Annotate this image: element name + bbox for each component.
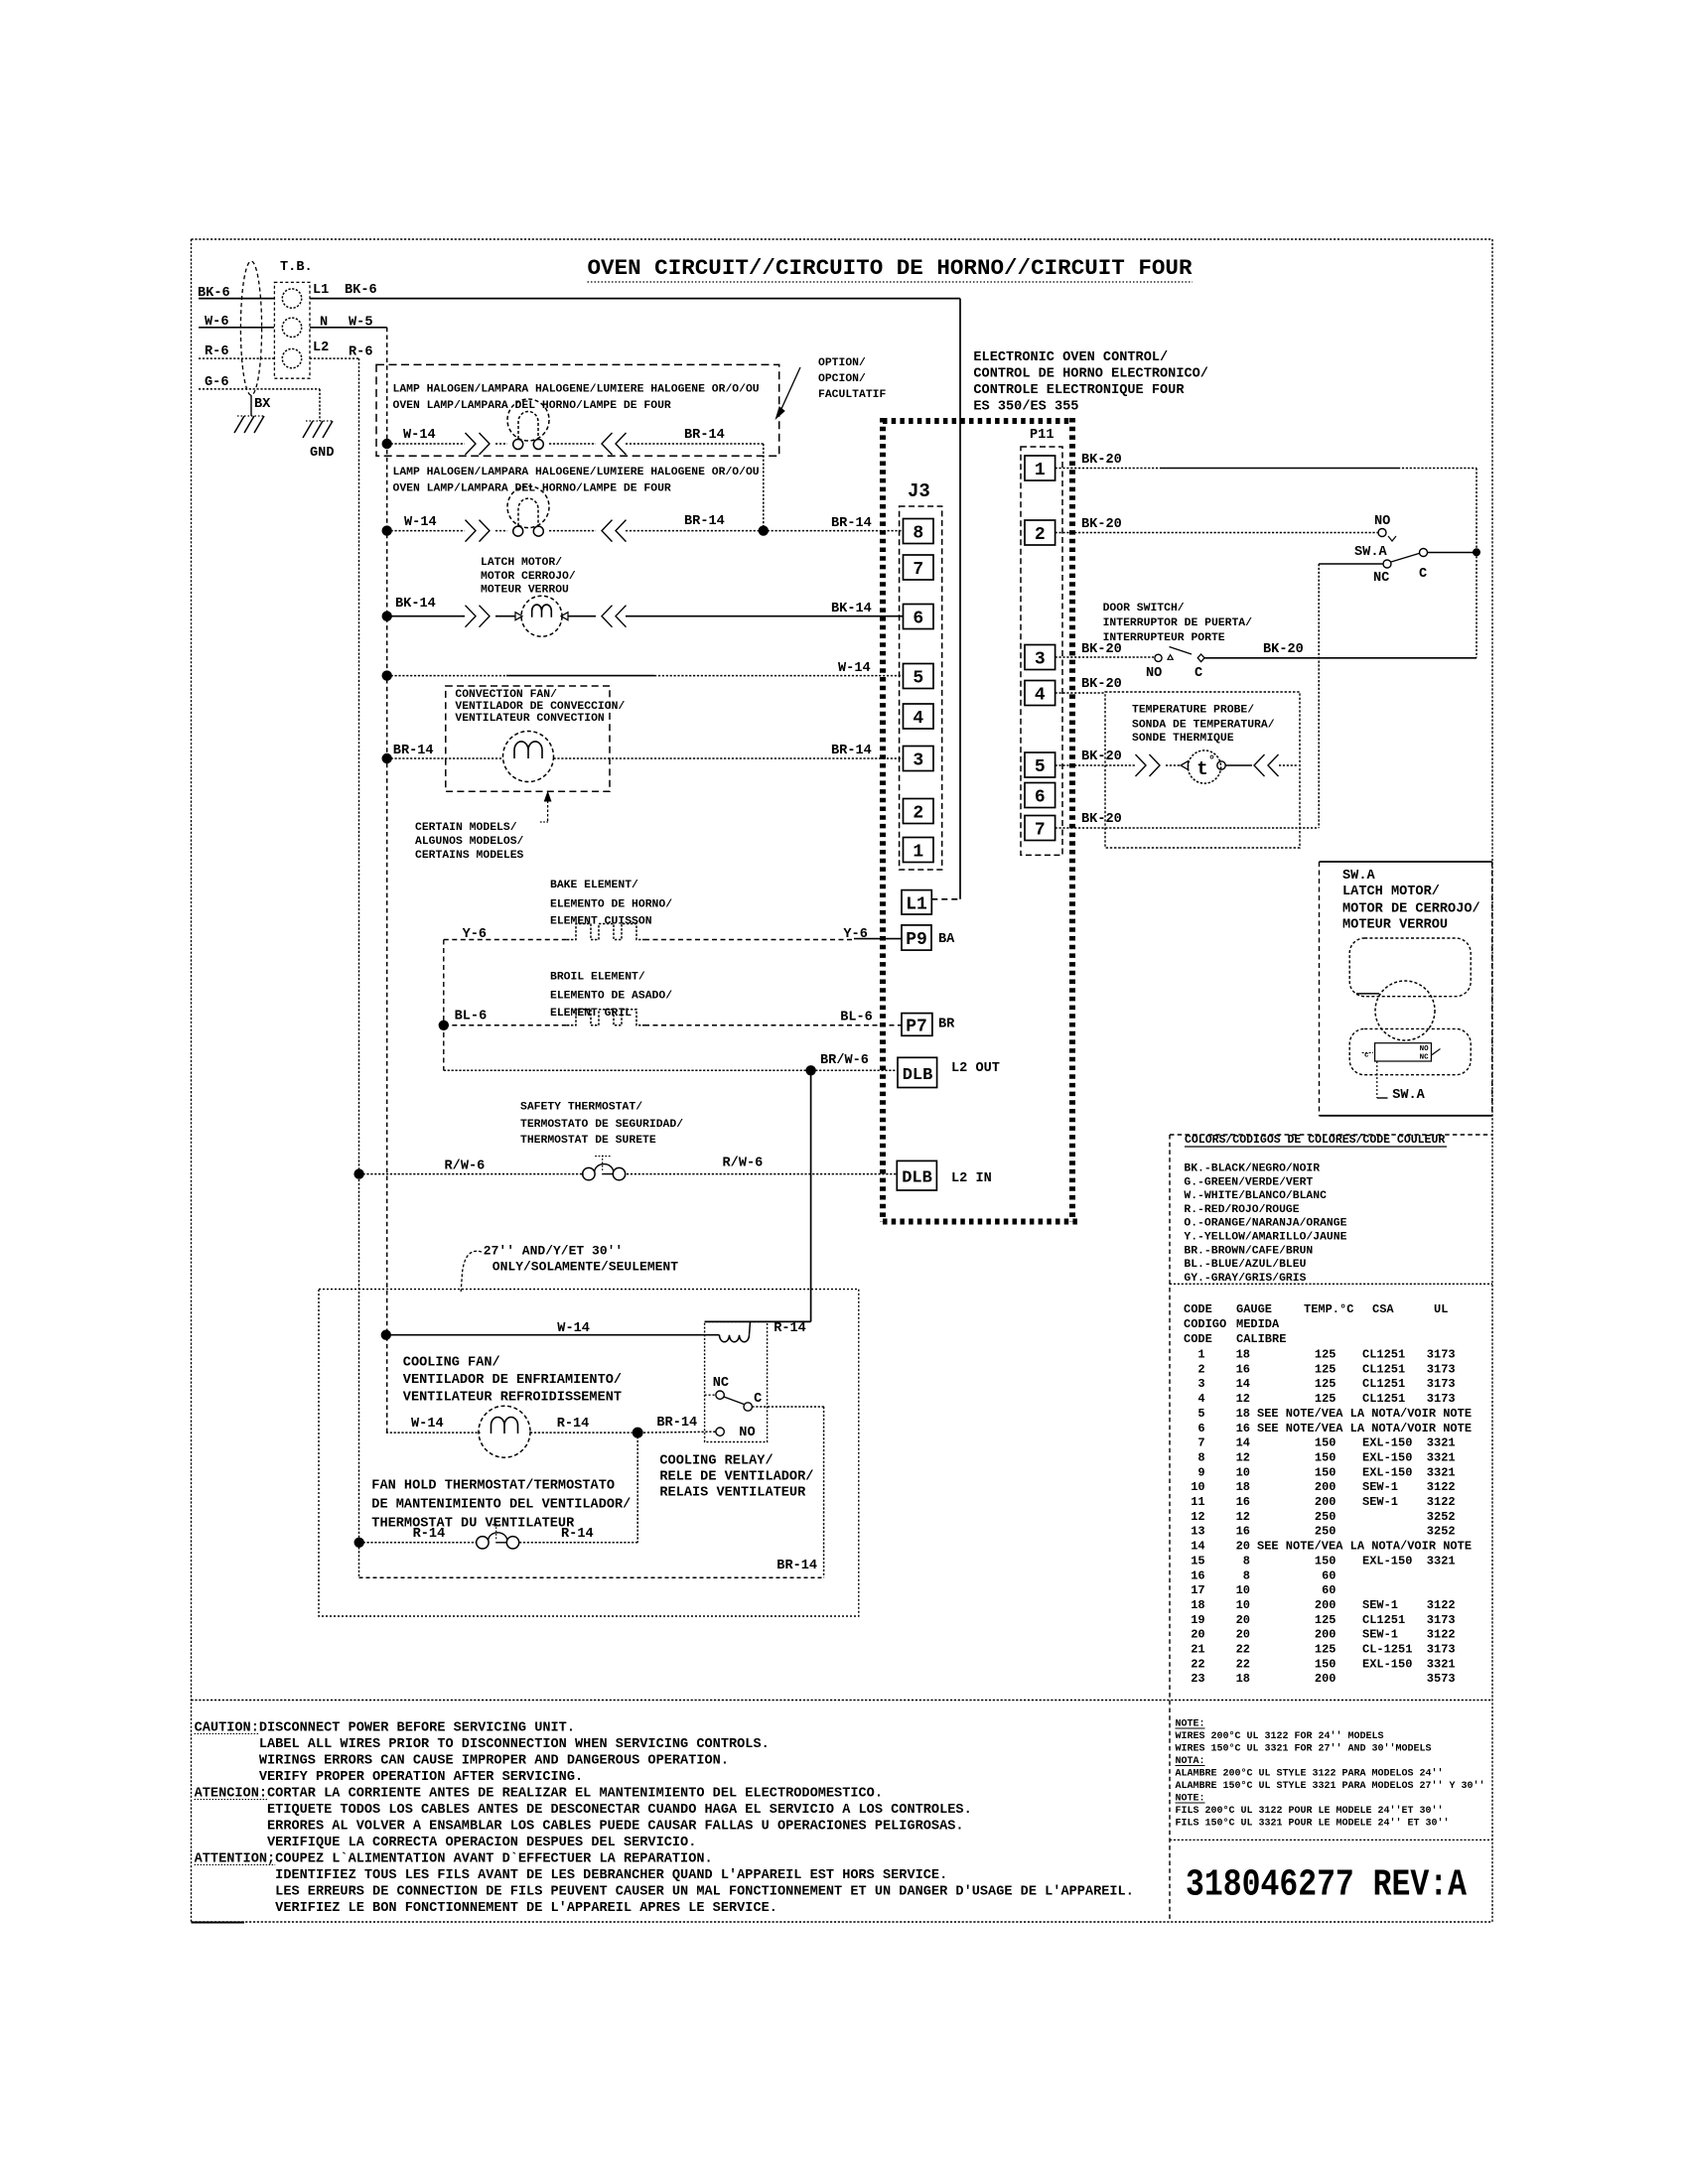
svg-text:150: 150	[1315, 1450, 1336, 1464]
svg-text:BL.-BLUE/AZUL/BLEU: BL.-BLUE/AZUL/BLEU	[1184, 1259, 1306, 1271]
svg-text:P7: P7	[906, 1017, 927, 1036]
svg-text:BK-20: BK-20	[1263, 642, 1304, 657]
svg-text:7: 7	[1035, 821, 1046, 841]
svg-text:NO: NO	[1420, 1045, 1430, 1053]
svg-text:LAMP HALOGEN/LAMPARA HALOGENE/: LAMP HALOGEN/LAMPARA HALOGENE/LUMIERE HA…	[393, 467, 760, 478]
svg-text:NC: NC	[1373, 571, 1389, 586]
svg-text:TERMOSTATO DE SEGURIDAD/: TERMOSTATO DE SEGURIDAD/	[520, 1119, 683, 1131]
svg-text:20: 20	[1191, 1628, 1204, 1642]
svg-text:8: 8	[1243, 1554, 1250, 1568]
svg-text:ELECTRONIC OVEN CONTROL/: ELECTRONIC OVEN CONTROL/	[973, 350, 1168, 365]
svg-text:12: 12	[1236, 1510, 1250, 1524]
svg-text:BK-20: BK-20	[1081, 642, 1122, 657]
svg-text:THERMOSTAT DE SURETE: THERMOSTAT DE SURETE	[520, 1135, 656, 1147]
svg-text:2: 2	[1035, 525, 1046, 545]
svg-text:LATCH MOTOR/: LATCH MOTOR/	[1342, 885, 1440, 899]
svg-text:3122: 3122	[1427, 1480, 1456, 1494]
svg-text:SW.A: SW.A	[1354, 545, 1387, 560]
svg-text:15: 15	[1191, 1554, 1204, 1568]
svg-text:TEMP.°C: TEMP.°C	[1304, 1302, 1353, 1316]
svg-text:CERTAIN MODELS/: CERTAIN MODELS/	[415, 822, 517, 834]
svg-text:FILS 150°C UL 3321 POUR LE MOD: FILS 150°C UL 3321 POUR LE MODELE 24'' E…	[1176, 1818, 1450, 1830]
svg-text:CL-1251: CL-1251	[1362, 1643, 1412, 1657]
svg-text:18: 18	[1236, 1480, 1250, 1494]
svg-text:5: 5	[913, 669, 923, 689]
svg-text:SAFETY THERMOSTAT/: SAFETY THERMOSTAT/	[520, 1102, 642, 1114]
svg-text:W.-WHITE/BLANCO/BLANC: W.-WHITE/BLANCO/BLANC	[1184, 1190, 1327, 1202]
svg-text:10: 10	[1236, 1583, 1250, 1597]
svg-text:CONTROL DE HORNO ELECTRONICO/: CONTROL DE HORNO ELECTRONICO/	[973, 367, 1208, 382]
svg-text:BR-14: BR-14	[831, 744, 872, 758]
svg-text:200: 200	[1315, 1672, 1336, 1686]
svg-text:R/W-6: R/W-6	[723, 1157, 764, 1171]
svg-text:P11: P11	[1030, 428, 1054, 443]
svg-text:10: 10	[1191, 1480, 1204, 1494]
svg-text:T.B.: T.B.	[280, 260, 313, 275]
svg-text:BR-14: BR-14	[776, 1559, 817, 1573]
svg-text:8: 8	[913, 524, 923, 544]
svg-text:SEE NOTE/VEA LA NOTA/VOIR NOTE: SEE NOTE/VEA LA NOTA/VOIR NOTE	[1257, 1540, 1472, 1554]
svg-text:R-14: R-14	[774, 1321, 806, 1336]
svg-text:SW.A: SW.A	[1392, 1088, 1425, 1103]
svg-text:3252: 3252	[1427, 1510, 1456, 1524]
svg-text:W-14: W-14	[404, 515, 437, 530]
svg-text:3122: 3122	[1427, 1628, 1456, 1642]
svg-text:14: 14	[1236, 1436, 1250, 1450]
svg-text:CL1251: CL1251	[1362, 1348, 1405, 1362]
svg-text:14: 14	[1191, 1540, 1204, 1554]
svg-text:R-14: R-14	[557, 1417, 590, 1432]
svg-text:G.-GREEN/VERDE/VERT: G.-GREEN/VERDE/VERT	[1184, 1176, 1313, 1188]
svg-text:Y.-YELLOW/AMARILLO/JAUNE: Y.-YELLOW/AMARILLO/JAUNE	[1184, 1232, 1346, 1244]
svg-text:22: 22	[1236, 1657, 1250, 1671]
svg-text:CL1251: CL1251	[1362, 1392, 1405, 1406]
svg-text:16: 16	[1236, 1362, 1250, 1376]
svg-text:2: 2	[913, 804, 923, 824]
svg-text:WIRES 200°C UL 3122 FOR 24'' M: WIRES 200°C UL 3122 FOR 24'' MODELS	[1176, 1730, 1384, 1742]
svg-text:11: 11	[1191, 1495, 1204, 1509]
svg-text:FILS 200°C UL 3122 POUR LE MOD: FILS 200°C UL 3122 POUR LE MODELE 24''ET…	[1176, 1805, 1444, 1817]
svg-text:BR/W-6: BR/W-6	[820, 1053, 869, 1068]
svg-text:BR-14: BR-14	[393, 744, 434, 758]
svg-text:3122: 3122	[1427, 1495, 1456, 1509]
svg-text:22: 22	[1191, 1657, 1204, 1671]
svg-text:UL: UL	[1434, 1302, 1448, 1316]
svg-text:OPCION/: OPCION/	[818, 373, 866, 385]
svg-text:23: 23	[1191, 1672, 1204, 1686]
svg-text:18: 18	[1236, 1672, 1250, 1686]
svg-text:MOTOR CERROJO/: MOTOR CERROJO/	[481, 571, 576, 583]
svg-text:2: 2	[1197, 1362, 1204, 1376]
svg-text:16: 16	[1191, 1569, 1204, 1582]
svg-text:CONTROLE ELECTRONIQUE FOUR: CONTROLE ELECTRONIQUE FOUR	[973, 383, 1185, 398]
svg-text:7: 7	[1197, 1436, 1204, 1450]
svg-text:125: 125	[1315, 1348, 1336, 1362]
svg-text:8: 8	[1197, 1450, 1204, 1464]
svg-text:5: 5	[1197, 1407, 1204, 1421]
svg-text:W-14: W-14	[838, 661, 871, 676]
svg-text:MOTEUR VERROU: MOTEUR VERROU	[1342, 918, 1448, 933]
svg-text:CONVECTION FAN/: CONVECTION FAN/	[455, 689, 557, 701]
svg-text:NO: NO	[1374, 514, 1390, 529]
svg-text:BR-14: BR-14	[684, 514, 725, 529]
svg-text:°: °	[1208, 753, 1215, 767]
svg-text:19: 19	[1191, 1613, 1204, 1627]
svg-text:3252: 3252	[1427, 1525, 1456, 1539]
svg-text:318046277 REV:A: 318046277 REV:A	[1186, 1864, 1467, 1907]
svg-text:3173: 3173	[1427, 1392, 1456, 1406]
svg-text:t: t	[1196, 758, 1207, 780]
svg-text:BK-20: BK-20	[1081, 812, 1122, 827]
svg-text:EXL-150: EXL-150	[1362, 1465, 1412, 1479]
svg-text:LATCH MOTOR/: LATCH MOTOR/	[481, 557, 562, 569]
svg-text:17: 17	[1191, 1583, 1204, 1597]
svg-text:BX: BX	[254, 397, 271, 412]
svg-text:O.-ORANGE/NARANJA/ORANGE: O.-ORANGE/NARANJA/ORANGE	[1184, 1218, 1346, 1230]
svg-text:WIRINGS ERRORS CAN CAUSE IMPRO: WIRINGS ERRORS CAN CAUSE IMPROPER AND DA…	[195, 1754, 729, 1769]
svg-text:CL1251: CL1251	[1362, 1613, 1405, 1627]
svg-text:12: 12	[1236, 1392, 1250, 1406]
svg-text:27'' AND/Y/ET 30'': 27'' AND/Y/ET 30''	[484, 1244, 623, 1259]
svg-text:3122: 3122	[1427, 1598, 1456, 1612]
svg-text:COOLING RELAY/: COOLING RELAY/	[659, 1454, 773, 1469]
svg-text:BR: BR	[938, 1018, 955, 1032]
svg-text:6: 6	[913, 610, 923, 629]
svg-text:3173: 3173	[1427, 1362, 1456, 1376]
svg-text:BK-14: BK-14	[395, 597, 436, 612]
svg-text:13: 13	[1191, 1525, 1204, 1539]
svg-text:NC: NC	[1420, 1054, 1430, 1062]
svg-text:LAMP HALOGEN/LAMPARA HALOGENE/: LAMP HALOGEN/LAMPARA HALOGENE/LUMIERE HA…	[393, 384, 760, 396]
svg-text:16: 16	[1236, 1495, 1250, 1509]
svg-text:EXL-150: EXL-150	[1362, 1554, 1412, 1568]
svg-text:OPTION/: OPTION/	[818, 357, 866, 369]
svg-text:DE MANTENIMIENTO DEL VENTILADO: DE MANTENIMIENTO DEL VENTILADOR/	[371, 1498, 631, 1513]
svg-text:3321: 3321	[1427, 1436, 1456, 1450]
svg-text:MOTOR DE CERROJO/: MOTOR DE CERROJO/	[1342, 902, 1480, 917]
svg-text:3321: 3321	[1427, 1450, 1456, 1464]
svg-text:ALGUNOS MODELOS/: ALGUNOS MODELOS/	[415, 836, 524, 848]
svg-text:21: 21	[1191, 1643, 1204, 1657]
svg-text:R-6: R-6	[349, 345, 372, 360]
svg-text:1: 1	[1197, 1348, 1204, 1362]
svg-text:BR-14: BR-14	[684, 428, 725, 443]
svg-text:SONDA DE TEMPERATURA/: SONDA DE TEMPERATURA/	[1132, 720, 1275, 732]
svg-text:R/W-6: R/W-6	[445, 1160, 486, 1174]
svg-text:10: 10	[1236, 1465, 1250, 1479]
svg-text:3321: 3321	[1427, 1657, 1456, 1671]
svg-text:CERTAINS MODELES: CERTAINS MODELES	[415, 850, 524, 862]
svg-text:150: 150	[1315, 1554, 1336, 1568]
svg-text:VENTILATEUR CONVECTION: VENTILATEUR CONVECTION	[455, 713, 605, 725]
svg-text:COOLING FAN/: COOLING FAN/	[403, 1356, 500, 1371]
svg-text:DLB: DLB	[903, 1066, 933, 1085]
svg-text:3321: 3321	[1427, 1465, 1456, 1479]
svg-text:20: 20	[1236, 1628, 1250, 1642]
svg-text:1: 1	[1035, 461, 1046, 480]
svg-text:W-14: W-14	[411, 1417, 444, 1432]
svg-text:3: 3	[913, 751, 923, 771]
svg-text:3: 3	[1035, 650, 1046, 670]
svg-text:IDENTIFIEZ TOUS LES FILS AVANT: IDENTIFIEZ TOUS LES FILS AVANT DE LES DE…	[195, 1868, 948, 1883]
svg-text:4: 4	[1197, 1392, 1204, 1406]
svg-text:125: 125	[1315, 1613, 1336, 1627]
svg-text:OVEN LAMP/LAMPARA DEL HORNO/LA: OVEN LAMP/LAMPARA DEL HORNO/LAMPE DE FOU…	[393, 400, 671, 412]
svg-text:125: 125	[1315, 1643, 1336, 1657]
svg-text:250: 250	[1315, 1525, 1336, 1539]
svg-text:MOTEUR VERROU: MOTEUR VERROU	[481, 585, 569, 597]
svg-text:CL1251: CL1251	[1362, 1362, 1405, 1376]
svg-text:NO: NO	[1146, 666, 1162, 681]
svg-text:DLB: DLB	[902, 1169, 932, 1188]
svg-text:INTERRUPTOR DE PUERTA/: INTERRUPTOR DE PUERTA/	[1103, 617, 1253, 629]
svg-text:BK-6: BK-6	[345, 283, 377, 298]
svg-text:20: 20	[1236, 1540, 1250, 1554]
svg-text:VERIFIEZ LE BON FONCTIONNEMENT: VERIFIEZ LE BON FONCTIONNEMENT DE L'APPA…	[195, 1901, 777, 1916]
svg-text:GY.-GRAY/GRIS/GRIS: GY.-GRAY/GRIS/GRIS	[1184, 1273, 1306, 1285]
svg-text:150: 150	[1315, 1465, 1336, 1479]
svg-text:SONDE THERMIQUE: SONDE THERMIQUE	[1132, 733, 1234, 745]
svg-text:W-14: W-14	[403, 428, 436, 443]
svg-text:125: 125	[1315, 1392, 1336, 1406]
svg-text:CL1251: CL1251	[1362, 1377, 1405, 1391]
svg-text:EXL-150: EXL-150	[1362, 1657, 1412, 1671]
svg-text:CODIGO: CODIGO	[1184, 1317, 1226, 1331]
svg-text:VENTILADOR DE ENFRIAMIENTO/: VENTILADOR DE ENFRIAMIENTO/	[403, 1373, 622, 1388]
svg-text:BK-20: BK-20	[1081, 453, 1122, 468]
svg-text:ALAMBRE 150°C UL STYLE 3321 PA: ALAMBRE 150°C UL STYLE 3321 PARA MODELOS…	[1176, 1780, 1485, 1792]
svg-text:BAKE ELEMENT/: BAKE ELEMENT/	[550, 880, 638, 891]
svg-text:BA: BA	[938, 932, 955, 947]
svg-text:SEW-1: SEW-1	[1362, 1598, 1398, 1612]
svg-text:L2: L2	[313, 341, 329, 355]
svg-text:BK-20: BK-20	[1081, 517, 1122, 532]
svg-text:ELEMENTO DE HORNO/: ELEMENTO DE HORNO/	[550, 899, 672, 911]
svg-text:ETIQUETE TODOS LOS CABLES ANTE: ETIQUETE TODOS LOS CABLES ANTES DE DESCO…	[195, 1803, 972, 1818]
svg-text:BK-14: BK-14	[831, 602, 872, 616]
svg-text:12: 12	[1191, 1510, 1204, 1524]
svg-text:200: 200	[1315, 1628, 1336, 1642]
svg-text:SEW-1: SEW-1	[1362, 1628, 1398, 1642]
svg-text:5: 5	[1035, 757, 1046, 777]
svg-text:ALAMBRE 200°C UL STYLE 3122 PA: ALAMBRE 200°C UL STYLE 3122 PARA MODELOS…	[1176, 1768, 1444, 1780]
svg-text:SEE NOTE/VEA LA NOTA/VOIR NOTE: SEE NOTE/VEA LA NOTA/VOIR NOTE	[1257, 1407, 1472, 1421]
svg-text:200: 200	[1315, 1495, 1336, 1509]
svg-text:GAUGE: GAUGE	[1236, 1302, 1272, 1316]
svg-text:BK-20: BK-20	[1081, 677, 1122, 692]
svg-text:3321: 3321	[1427, 1554, 1456, 1568]
svg-text:THERMOSTAT DU VENTILATEUR: THERMOSTAT DU VENTILATEUR	[371, 1517, 575, 1532]
svg-text:R-14: R-14	[561, 1527, 594, 1542]
svg-text:CALIBRE: CALIBRE	[1236, 1332, 1286, 1346]
svg-text:200: 200	[1315, 1480, 1336, 1494]
svg-text:P9: P9	[906, 930, 927, 950]
svg-text:6: 6	[1197, 1422, 1204, 1435]
svg-text:150: 150	[1315, 1436, 1336, 1450]
svg-text:60: 60	[1322, 1583, 1336, 1597]
svg-text:20: 20	[1236, 1613, 1250, 1627]
svg-text:SW.A: SW.A	[1342, 869, 1375, 884]
svg-text:W-14: W-14	[557, 1321, 590, 1336]
svg-text:SEW-1: SEW-1	[1362, 1480, 1398, 1494]
svg-text:16: 16	[1236, 1422, 1250, 1435]
svg-text:BR.-BROWN/CAFE/BRUN: BR.-BROWN/CAFE/BRUN	[1184, 1245, 1313, 1257]
svg-text:BK-20: BK-20	[1081, 750, 1122, 764]
svg-text:BR-14: BR-14	[831, 516, 872, 531]
svg-text:LES ERREURS DE CONNECTION DE F: LES ERREURS DE CONNECTION DE FILS PEUVEN…	[195, 1885, 1134, 1900]
svg-text:4: 4	[1035, 686, 1046, 706]
svg-text:BL-6: BL-6	[840, 1011, 873, 1025]
svg-text:8: 8	[1243, 1569, 1250, 1582]
svg-text:FACULTATIF: FACULTATIF	[818, 389, 887, 401]
svg-text:R.-RED/ROJO/ROUGE: R.-RED/ROJO/ROUGE	[1184, 1204, 1299, 1216]
svg-text:1: 1	[913, 843, 923, 863]
svg-text:22: 22	[1236, 1643, 1250, 1657]
svg-text:DOOR SWITCH/: DOOR SWITCH/	[1103, 603, 1185, 614]
svg-text:125: 125	[1315, 1377, 1336, 1391]
svg-text:3: 3	[1197, 1377, 1204, 1391]
svg-text:125: 125	[1315, 1362, 1336, 1376]
svg-text:J3: J3	[908, 480, 930, 502]
svg-text:CODE: CODE	[1184, 1302, 1212, 1316]
svg-text:10: 10	[1236, 1598, 1250, 1612]
svg-text:4: 4	[913, 709, 923, 729]
svg-text:OVEN CIRCUIT//CIRCUITO DE HORN: OVEN CIRCUIT//CIRCUITO DE HORNO//CIRCUIT…	[588, 255, 1193, 281]
svg-text:200: 200	[1315, 1598, 1336, 1612]
svg-text:WIRES 150°C UL 3321 FOR 27'' A: WIRES 150°C UL 3321 FOR 27'' AND 30''MOD…	[1176, 1743, 1432, 1755]
svg-text:COLORS/CODIGOS DE COLORES/CODE: COLORS/CODIGOS DE COLORES/CODE COULEUR	[1185, 1134, 1445, 1147]
svg-text:c: c	[1364, 1052, 1369, 1060]
svg-text:3173: 3173	[1427, 1643, 1456, 1657]
svg-text:9: 9	[1197, 1465, 1204, 1479]
svg-text:3173: 3173	[1427, 1348, 1456, 1362]
svg-text:ERRORES AL VOLVER A ENSAMBLAR: ERRORES AL VOLVER A ENSAMBLAR LOS CABLES…	[195, 1820, 964, 1835]
svg-text:L2 OUT: L2 OUT	[951, 1061, 1000, 1076]
svg-text:C: C	[754, 1392, 762, 1407]
svg-text:BK.-BLACK/NEGRO/NOIR: BK.-BLACK/NEGRO/NOIR	[1184, 1163, 1320, 1175]
svg-text:R-14: R-14	[413, 1527, 446, 1542]
svg-text:BROIL ELEMENT/: BROIL ELEMENT/	[550, 971, 645, 983]
svg-text:ES 350/ES 355: ES 350/ES 355	[973, 400, 1078, 415]
svg-text:12: 12	[1236, 1450, 1250, 1464]
svg-text:VERIFY PROPER OPERATION AFTER: VERIFY PROPER OPERATION AFTER SERVICING.	[195, 1770, 584, 1785]
svg-text:18: 18	[1236, 1407, 1250, 1421]
svg-text:L1: L1	[313, 283, 329, 298]
svg-text:6: 6	[1035, 788, 1046, 808]
svg-text:BL-6: BL-6	[455, 1010, 488, 1024]
svg-text:SEE NOTE/VEA LA NOTA/VOIR NOTE: SEE NOTE/VEA LA NOTA/VOIR NOTE	[1257, 1422, 1472, 1435]
svg-text:GND: GND	[310, 446, 334, 461]
svg-text:NO: NO	[739, 1426, 755, 1440]
svg-text:60: 60	[1322, 1569, 1336, 1582]
svg-text:CODE: CODE	[1184, 1332, 1212, 1346]
svg-text:L1: L1	[906, 894, 927, 914]
svg-text:250: 250	[1315, 1510, 1336, 1524]
svg-text:7: 7	[913, 560, 923, 580]
svg-text:RELE DE VENTILADOR/: RELE DE VENTILADOR/	[659, 1470, 813, 1485]
svg-text:R-6: R-6	[205, 344, 228, 359]
svg-text:EXL-150: EXL-150	[1362, 1450, 1412, 1464]
svg-text:G-6: G-6	[205, 375, 228, 390]
svg-text:C: C	[1195, 666, 1202, 681]
svg-text:MEDIDA: MEDIDA	[1236, 1317, 1280, 1331]
svg-text:3573: 3573	[1427, 1672, 1456, 1686]
svg-text:FAN HOLD THERMOSTAT/TERMOSTATO: FAN HOLD THERMOSTAT/TERMOSTATO	[371, 1479, 615, 1494]
svg-text:ELEMENTO DE ASADO/: ELEMENTO DE ASADO/	[550, 991, 672, 1003]
svg-text:NC: NC	[713, 1376, 729, 1391]
svg-text:14: 14	[1236, 1377, 1250, 1391]
svg-text:Y-6: Y-6	[463, 927, 487, 942]
svg-text:VENTILADOR DE CONVECCION/: VENTILADOR DE CONVECCION/	[455, 701, 625, 713]
svg-text:RELAIS VENTILATEUR: RELAIS VENTILATEUR	[659, 1486, 806, 1501]
svg-text:ONLY/SOLAMENTE/SEULEMENT: ONLY/SOLAMENTE/SEULEMENT	[492, 1260, 678, 1275]
svg-text:VENTILATEUR REFROIDISSEMENT: VENTILATEUR REFROIDISSEMENT	[403, 1391, 622, 1406]
svg-text:EXL-150: EXL-150	[1362, 1436, 1412, 1450]
svg-text:L2 IN: L2 IN	[951, 1171, 992, 1186]
svg-text:BR-14: BR-14	[656, 1416, 697, 1431]
svg-text:18: 18	[1191, 1598, 1204, 1612]
svg-text:SEW-1: SEW-1	[1362, 1495, 1398, 1509]
svg-text:CSA: CSA	[1372, 1302, 1394, 1316]
svg-text:ATENCION:CORTAR LA CORRIENTE A: ATENCION:CORTAR LA CORRIENTE ANTES DE RE…	[195, 1787, 883, 1802]
svg-text:3173: 3173	[1427, 1613, 1456, 1627]
svg-text:18: 18	[1236, 1348, 1250, 1362]
svg-text:VERIFIQUE LA CORRECTA OPERACIO: VERIFIQUE LA CORRECTA OPERACION DESPUES …	[195, 1836, 697, 1850]
svg-text:TEMPERATURE PROBE/: TEMPERATURE PROBE/	[1132, 705, 1254, 717]
svg-text:3173: 3173	[1427, 1377, 1456, 1391]
svg-text:C: C	[1419, 567, 1427, 582]
svg-text:16: 16	[1236, 1525, 1250, 1539]
svg-text:OVEN LAMP/LAMPARA DEL HORNO/LA: OVEN LAMP/LAMPARA DEL HORNO/LAMPE DE FOU…	[393, 482, 671, 494]
svg-text:150: 150	[1315, 1657, 1336, 1671]
svg-text:LABEL ALL WIRES PRIOR TO DISCO: LABEL ALL WIRES PRIOR TO DISCONNECTION W…	[195, 1737, 770, 1752]
